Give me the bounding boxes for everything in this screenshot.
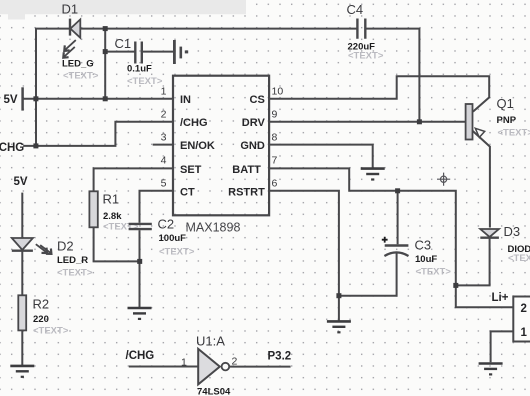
wire D3 cathode down and left to junction: [456, 238, 490, 285]
svg-text:/CHG: /CHG: [126, 350, 155, 362]
svg-text:DRV: DRV: [242, 117, 266, 129]
IC left pin labels: [180, 94, 215, 198]
wire pin 3 stub: [153, 144, 174, 146]
svg-text:R2: R2: [33, 297, 50, 312]
svg-text:<TEXT>: <TEXT>: [416, 267, 452, 278]
IC U? MAX1898 body: [173, 76, 269, 235]
svg-text:10uF: 10uF: [415, 254, 437, 265]
svg-text:MAX1898: MAX1898: [186, 221, 241, 235]
svg-text:2: 2: [232, 356, 238, 368]
svg-text:<TEXT>: <TEXT>: [33, 326, 69, 337]
svg-text:U1:A: U1:A: [196, 334, 225, 349]
svg-text:D2: D2: [57, 239, 74, 254]
svg-text:74LS04: 74LS04: [197, 387, 231, 396]
wire R2 bottom to ground: [21, 330, 23, 365]
wire C2 bottom to ground: [139, 230, 141, 307]
svg-text:CT: CT: [180, 186, 195, 198]
svg-text:1: 1: [161, 85, 167, 97]
wire C4 right to DRV line: [366, 29, 419, 122]
svg-text:0.1uF: 0.1uF: [127, 64, 152, 75]
IC right pin labels: [228, 94, 265, 198]
svg-text:IN: IN: [180, 94, 191, 106]
wire Li+ pin 1 to ground: [491, 331, 514, 362]
wire U1 input from /CHG label: [129, 366, 198, 368]
svg-text:2.8k: 2.8k: [103, 211, 122, 222]
wire 5V rail to pin 1 IN: [23, 98, 174, 100]
svg-text:5V: 5V: [14, 176, 28, 188]
wire U1 output to P3.2: [229, 366, 290, 368]
svg-text:7: 7: [272, 155, 278, 167]
svg-text:<TEXT>: <TEXT>: [508, 253, 530, 264]
wire Q1 collector to D3: [473, 131, 490, 228]
ground under Li+ pin 1: [479, 364, 503, 376]
svg-text:D1: D1: [62, 2, 79, 17]
diode D3: [480, 224, 530, 264]
unconnected plate element right of C1: [174, 40, 188, 64]
LED D1: [62, 2, 99, 82]
svg-text:<TEXT>: <TEXT>: [127, 76, 163, 87]
wire BATT junction down to C3 plus: [397, 191, 399, 245]
capacitor C2: [129, 217, 195, 258]
wire pin 6 RSTRT down to ground: [269, 191, 339, 321]
svg-text:<TEXT>: <TEXT>: [159, 247, 195, 258]
wire C1 right: [143, 51, 173, 53]
wire pin 4 SET to R1 top: [94, 168, 174, 191]
wire top rail right of D1 to C4: [80, 28, 356, 30]
svg-text:EN/OK: EN/OK: [180, 140, 215, 152]
svg-text:Q1: Q1: [497, 96, 514, 111]
svg-text:4: 4: [161, 155, 167, 167]
wire R1 bottom to junction: [94, 227, 140, 261]
svg-text:3: 3: [161, 131, 167, 143]
svg-text:<TEXT>: <TEXT>: [348, 51, 384, 62]
wire C3 bottom to pin6 vertical: [339, 252, 397, 296]
wire D2 cathode to R2: [21, 251, 23, 296]
crosshair origin marker: [437, 173, 450, 186]
wire pin 10 CS up and over to Q1 emitter: [269, 76, 489, 111]
svg-text:<TEXT>: <TEXT>: [63, 71, 99, 82]
svg-text:LED_G: LED_G: [62, 59, 94, 70]
wire pin 8 GND to ground: [269, 145, 373, 168]
wire /CHG net to pin 2: [23, 122, 173, 146]
wire top rail left of D1: [36, 29, 70, 146]
IC pin numbers right: [272, 85, 284, 189]
svg-text:1: 1: [181, 357, 187, 369]
svg-text:10: 10: [272, 85, 284, 97]
svg-text:Li+: Li+: [492, 292, 509, 304]
svg-text:CS: CS: [250, 94, 265, 106]
svg-text:GND: GND: [240, 140, 265, 152]
svg-text:5: 5: [161, 178, 167, 190]
wire pin 9 DRV to Q1 base: [269, 121, 466, 123]
svg-text:C3: C3: [415, 238, 432, 253]
svg-text:C4: C4: [347, 2, 364, 17]
svg-text:P3.2: P3.2: [268, 351, 292, 363]
svg-text:SET: SET: [180, 164, 202, 176]
resistor R1: [89, 191, 138, 232]
wire 5V to D2 anode: [21, 193, 23, 238]
svg-text:C1: C1: [115, 36, 132, 51]
ground under pin 6 net: [327, 321, 351, 333]
capacitor C1: [115, 36, 163, 87]
svg-text:<TEXT>: <TEXT>: [57, 268, 93, 279]
svg-text:D3: D3: [504, 224, 521, 239]
svg-text:2: 2: [161, 108, 167, 120]
svg-text:RSTRT: RSTRT: [228, 186, 265, 198]
svg-text:2: 2: [521, 303, 527, 315]
svg-text:LED_R: LED_R: [57, 255, 88, 266]
svg-text:220: 220: [33, 314, 49, 325]
wire C1 left: [105, 51, 134, 53]
capacitor C3: [382, 237, 452, 278]
svg-text:100uF: 100uF: [159, 233, 187, 244]
svg-text:6: 6: [272, 178, 278, 190]
svg-text:<TEXT>: <TEXT>: [498, 128, 530, 139]
svg-text:C2: C2: [158, 217, 175, 232]
wire pin 7 BATT to Li+ connector pin 2: [269, 168, 513, 307]
svg-text:8: 8: [272, 131, 278, 143]
inverter U1:A 74LS04: [181, 334, 238, 396]
ground under R2: [10, 366, 34, 378]
svg-text:/CHG: /CHG: [0, 142, 24, 154]
ground under pin 8: [361, 169, 385, 181]
resistor R2: [18, 295, 69, 336]
connector Li+ J1: [492, 292, 530, 342]
wire pin 5 CT to C2 top: [140, 191, 174, 223]
wire vertical drop at x105 from top rail to 5V rail: [104, 29, 106, 99]
svg-text:PNP: PNP: [497, 115, 517, 126]
LED D2: [12, 238, 93, 279]
svg-text:BATT: BATT: [232, 164, 261, 176]
IC pin numbers left: [161, 85, 167, 189]
svg-text:1: 1: [521, 327, 528, 339]
svg-text:/CHG: /CHG: [180, 117, 208, 129]
svg-text:R1: R1: [103, 192, 120, 207]
power symbol 5V top-left: [21, 87, 24, 110]
transistor Q1: [466, 96, 530, 140]
svg-text:5V: 5V: [4, 94, 18, 106]
capacitor C4: [347, 2, 384, 62]
svg-text:9: 9: [272, 108, 278, 120]
ground under C2/R1 net: [128, 308, 152, 320]
